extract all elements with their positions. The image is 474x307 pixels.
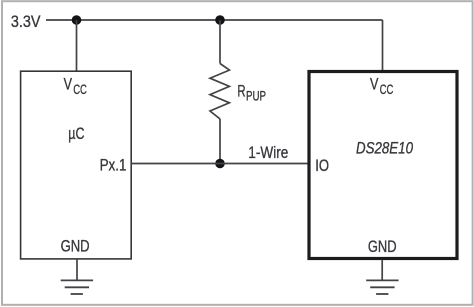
resistor RPUP zigzag: [210, 64, 229, 119]
pin label VCC (µC): [64, 75, 87, 97]
junction at RPUP tap: [215, 15, 225, 25]
svg-text:3.3V: 3.3V: [11, 12, 41, 31]
svg-text:V: V: [64, 75, 73, 94]
svg-text:Px.1: Px.1: [100, 155, 127, 174]
ground symbol right: [366, 280, 398, 294]
svg-text:CC: CC: [380, 81, 394, 97]
wire 1-Wire bus Px.1 to IO: [131, 163, 309, 165]
DS28E10 box: [309, 72, 457, 259]
wire DS28E10 GND to ground: [381, 260, 383, 280]
wire 3.3V rail down to µC VCC: [76, 20, 78, 71]
svg-text:µC: µC: [68, 124, 84, 143]
svg-text:DS28E10: DS28E10: [356, 139, 413, 158]
svg-text:GND: GND: [61, 236, 90, 255]
junction on 1-Wire bus: [215, 159, 225, 169]
svg-text:PUP: PUP: [246, 88, 266, 104]
svg-text:V: V: [370, 75, 379, 94]
microcontroller box µC: [21, 71, 132, 259]
svg-text:CC: CC: [73, 81, 87, 97]
svg-text:IO: IO: [315, 156, 329, 175]
junction at microcontroller VCC tap: [72, 15, 82, 25]
value label RPUP: [237, 82, 266, 104]
svg-text:R: R: [237, 82, 245, 101]
wire 3.3V rail down to DS28E10 VCC: [382, 20, 384, 72]
wire 3.3V rail down to RPUP top: [219, 20, 221, 64]
wire RPUP bottom to 1-Wire bus: [219, 119, 221, 164]
wire 3.3V top rail: [46, 19, 383, 21]
wire µC GND to ground: [76, 259, 78, 281]
svg-text:GND: GND: [368, 237, 397, 256]
svg-text:1-Wire: 1-Wire: [248, 143, 288, 162]
ground symbol left: [61, 280, 93, 294]
pin label VCC (DS28E10): [370, 75, 393, 97]
